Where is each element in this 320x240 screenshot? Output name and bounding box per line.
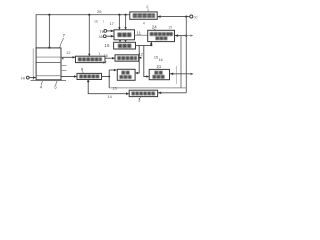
wire: from dot into filter box right edge (175, 35, 186, 37)
svg-text:11: 11 (137, 31, 142, 36)
label: converter box text (133, 14, 137, 18)
wire: stub into F left edge (109, 69, 116, 71)
box modulator G (149, 69, 169, 79)
wire: Tb into mixer (107, 30, 114, 32)
node: junction dot (109.2,76.5) (108, 76, 110, 78)
wire: converter right edge to right terminal (157, 16, 189, 18)
node: junction dot at (125.6,14.1) (125, 14, 127, 16)
svg-text:4: 4 (143, 22, 145, 26)
svg-text:12: 12 (66, 51, 70, 55)
svg-text:13: 13 (113, 87, 117, 91)
wire: tall box to upper driver (61, 56, 75, 58)
svg-text:16: 16 (94, 20, 98, 24)
svg-text:19: 19 (168, 26, 172, 30)
wire: drop x=119.4 into mixer box top (118, 15, 120, 30)
svg-text:15: 15 (105, 43, 110, 48)
wire: faint outer vertical left of tall box (32, 49, 34, 81)
wire: drop x=46.5 into tall box top (48, 15, 50, 48)
wire: under tall box y=83.6 (31, 80, 67, 82)
label: filter box text line1 (150, 32, 154, 36)
svg-text:17: 17 (102, 59, 107, 64)
label: modulator G text line2 (153, 75, 157, 78)
wire: input into tall box (29, 77, 35, 79)
wire: branch down x=143.8 into G left edge (144, 45, 149, 76)
svg-text:Vb: Vb (99, 35, 104, 39)
label: modulator F text line1 (122, 71, 126, 74)
svg-text:2: 2 (146, 4, 149, 9)
label: regulator text (132, 92, 135, 96)
label: upper driver text (78, 58, 82, 62)
box mixer B1 (114, 30, 135, 40)
node: end blob arrow right of G line (191, 73, 194, 75)
node: junction dot (186.3,35.6) (185, 35, 187, 37)
wire: bottom faint line y=87.9 (109, 87, 186, 89)
wire: regulator right to corner up joining x=186.3 (158, 92, 187, 94)
wire: right vertical x=181 (180, 36, 182, 88)
node: junction dot (186.3,16.6) (185, 16, 187, 18)
svg-text:16: 16 (159, 58, 163, 62)
divider 2 (36, 61, 61, 63)
wire: Vb into mixer (106, 35, 113, 37)
svg-text:12: 12 (139, 51, 144, 56)
wire: branch down x=139.2 into F right edge (136, 45, 139, 73)
wire: upper driver to VTR box (105, 57, 115, 59)
divider 1 (36, 56, 61, 58)
svg-text:Tb: Tb (100, 30, 104, 34)
box oscillator C (114, 42, 136, 49)
label: VTR box text (117, 56, 121, 60)
wire: top horizontal bus y=14.1 with left corner down to tall box (36, 15, 130, 48)
node: junction dot (88.2,83.6) (87, 80, 89, 82)
svg-text:0d: 0d (194, 15, 198, 19)
svg-text:17: 17 (110, 21, 114, 26)
label: lower driver text (79, 75, 83, 79)
box modulator F (117, 69, 135, 80)
wire: mixer to filter box faint (135, 34, 148, 36)
wire: vertical x=109.2 from F stub down to y=87.9 (108, 70, 110, 88)
terminal: input Tb circle (104, 30, 107, 33)
wire: faint vertical right of G box (176, 66, 178, 84)
svg-text:4: 4 (40, 85, 43, 90)
box filter/receiver E (148, 30, 175, 41)
label: modulator G text line1 (155, 71, 159, 74)
svg-text:15: 15 (154, 55, 158, 59)
svg-text:21: 21 (157, 64, 162, 69)
label: modulator F text line2 (120, 75, 124, 78)
terminal: input left circle (26, 76, 29, 79)
box regulator H (129, 90, 157, 96)
node: junction dot at (46.5,14.1) (48, 14, 50, 16)
terminal: top-right output circle (190, 15, 193, 18)
wire: mixer down to oscillator arrow 2 (125, 40, 127, 42)
wire: lower driver right to vertical x=109.2 (102, 76, 110, 78)
stub on tall box right edge y=65.6 (61, 65, 67, 67)
wire: right vertical x=186.3 down to regulator line corner (185, 17, 187, 93)
node: junction dot (151.3,45.1) (150, 44, 152, 46)
wire: stub into D right edge (138, 57, 140, 59)
box converter (top) (130, 12, 157, 19)
box lower driver (77, 73, 102, 79)
svg-text:14: 14 (108, 95, 112, 99)
label: mixer box text (118, 33, 122, 37)
node: junction dot at (89.3,14.1) (88, 14, 90, 16)
wire: oscillator output right then up into filter bottom (136, 42, 152, 45)
svg-text:16: 16 (104, 54, 108, 58)
wire: faint arrow stub right of dot (186, 35, 191, 37)
terminal: input Vb circle (103, 35, 106, 38)
box upper driver (76, 56, 106, 62)
divider 3 (36, 75, 61, 77)
stub on tall box right edge y=70.4 (61, 69, 67, 71)
wire: lower driver bottom down x=88.2 then right to regulator (88, 80, 129, 94)
svg-text:5: 5 (54, 85, 57, 90)
wire: mixer down to oscillator arrow 1 (119, 40, 121, 42)
svg-text:1: 1 (103, 20, 105, 24)
wire: drop x=125.6 into mixer box top (125, 15, 127, 30)
node: junction dot at (119.4,14.1) (118, 14, 120, 16)
label: oscillator box text (118, 44, 122, 48)
wire: drop x=89.3 into upper driver box (88, 15, 90, 56)
tall box (terminal block) (36, 48, 61, 80)
svg-text:7: 7 (63, 33, 66, 38)
svg-text:26: 26 (97, 9, 102, 14)
wire: tall box to lower driver (61, 76, 77, 78)
label: filter box text line2 (156, 37, 160, 40)
box VTR D (115, 55, 139, 61)
svg-text:3: 3 (138, 97, 141, 102)
svg-text:Hi: Hi (21, 76, 25, 80)
wire: into G right edge from right vertical (170, 73, 191, 75)
